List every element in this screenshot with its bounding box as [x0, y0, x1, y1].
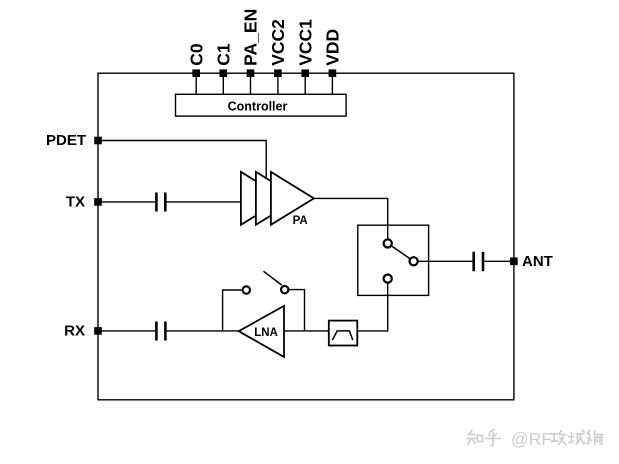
- controller block U1: [176, 94, 347, 116]
- svg-text:VDD: VDD: [323, 29, 343, 66]
- pin C1: [214, 43, 234, 94]
- svg-text:RX: RX: [64, 322, 85, 339]
- PA amplifier stage 1 (back triangle): [241, 172, 284, 225]
- svg-text:Controller: Controller: [228, 99, 288, 113]
- svg-text:LNA: LNA: [254, 327, 278, 339]
- capacitor C_TX: [156, 193, 165, 212]
- switch throw contact (RX side): [384, 275, 392, 283]
- svg-text:C1: C1: [214, 43, 234, 66]
- bypass tap wire (RX side): [223, 290, 243, 331]
- capacitor C_RX: [156, 322, 165, 341]
- svg-text:VCC2: VCC2: [268, 19, 288, 66]
- LNA amplifier U3: [239, 306, 284, 357]
- watermark char zhi: [467, 431, 483, 445]
- watermark: [467, 429, 603, 449]
- wire capacitor to PA input: [167, 201, 241, 203]
- bypass switch contact left: [243, 286, 250, 293]
- watermark char cheng: [569, 430, 585, 444]
- band-pass filter FL1: [329, 321, 358, 346]
- pin RX: [64, 322, 102, 339]
- wire LNA input to filter: [284, 330, 329, 332]
- svg-text:@RF: @RF: [511, 429, 552, 449]
- svg-text:C0: C0: [186, 43, 206, 66]
- pin PDET: [46, 132, 102, 149]
- wire PDET to PA: [99, 141, 266, 178]
- bypass tap wire (filter side): [288, 290, 304, 331]
- wire TX to capacitor: [99, 201, 155, 203]
- pin ANT: [510, 253, 553, 270]
- switch box SW1: [358, 225, 429, 295]
- capacitor C_ANT: [474, 252, 483, 271]
- switch common contact (ANT side): [410, 257, 418, 265]
- wire RX to capacitor: [99, 330, 155, 332]
- wire PA output to switch: [314, 198, 388, 239]
- pin PA_EN: [241, 9, 261, 95]
- wire capacitor to ANT pin: [484, 260, 510, 262]
- chip boundary rectangle: [98, 73, 514, 400]
- bypass switch contact right: [281, 286, 288, 293]
- PA amplifier stage 3 (front triangle) U2: [271, 172, 314, 225]
- wire filter to switch RX contact: [357, 283, 387, 331]
- switch throw contact (TX side): [384, 239, 392, 247]
- svg-text:PA: PA: [293, 215, 308, 227]
- pin TX: [66, 193, 102, 210]
- pin C0: [186, 43, 206, 94]
- bypass switch blade (open): [263, 271, 281, 285]
- wire switch common to capacitor: [418, 260, 473, 262]
- svg-text:VCC1: VCC1: [295, 19, 315, 66]
- watermark char gong: [551, 431, 566, 445]
- pin VCC1: [295, 19, 315, 94]
- svg-text:TX: TX: [66, 193, 85, 210]
- PA amplifier stage 2 (middle triangle): [256, 172, 299, 225]
- svg-text:PDET: PDET: [46, 132, 86, 149]
- svg-text:PA_EN: PA_EN: [241, 9, 261, 66]
- watermark char hu: [486, 430, 501, 446]
- svg-text:ANT: ANT: [522, 253, 553, 270]
- switch blade: [391, 246, 410, 259]
- wire capacitor to LNA output: [167, 330, 239, 332]
- pin VCC2: [268, 19, 288, 94]
- pin VDD: [323, 29, 343, 94]
- watermark char shi: [587, 430, 603, 445]
